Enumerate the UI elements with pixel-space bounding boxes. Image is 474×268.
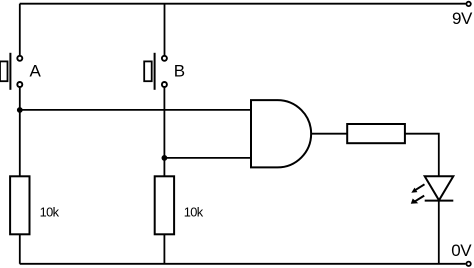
push button switch A xyxy=(0,53,22,90)
wire node A down to resistor R1 xyxy=(19,110,21,176)
svg-text:0V: 0V xyxy=(451,241,472,260)
LED D1 xyxy=(411,176,454,203)
label B xyxy=(174,62,185,81)
svg-text:10k: 10k xyxy=(184,204,204,219)
label 0V xyxy=(451,241,472,260)
wire 9V rail down to switch A xyxy=(19,4,21,56)
node A junction xyxy=(17,107,23,113)
wire resistor R2 to 0V rail xyxy=(163,234,165,263)
svg-text:B: B xyxy=(174,62,185,81)
wire node B to AND gate input 2 xyxy=(164,157,251,159)
wire LED to 0V rail xyxy=(438,201,440,264)
svg-text:9V: 9V xyxy=(452,9,473,28)
wire AND gate output to resistor R3 xyxy=(311,133,347,135)
terminal 9V xyxy=(466,2,470,6)
svg-text:10k: 10k xyxy=(40,204,60,219)
resistor R2 xyxy=(155,176,174,234)
AND gate U1 xyxy=(251,100,311,167)
terminal 0V xyxy=(466,262,470,266)
label 9V xyxy=(452,9,473,28)
node B junction xyxy=(162,155,168,161)
wire bottom 0V rail xyxy=(20,263,466,265)
wire switch B to node B xyxy=(163,88,165,158)
label A xyxy=(30,62,42,81)
wire resistor R3 to LED corner xyxy=(405,134,439,177)
wire node A to AND gate input 1 xyxy=(20,109,251,111)
wire switch A to node A xyxy=(19,88,21,110)
label 10k (R1) xyxy=(40,204,60,219)
wire node B down to resistor R2 xyxy=(163,158,165,176)
push button switch B xyxy=(144,53,167,90)
wire 9V rail down to switch B xyxy=(164,4,166,56)
resistor R1 xyxy=(10,176,29,234)
wire top 9V rail xyxy=(20,3,466,5)
svg-text:A: A xyxy=(30,62,42,81)
resistor R3 xyxy=(347,124,405,143)
label 10k (R2) xyxy=(184,204,204,219)
wire resistor R1 to 0V rail xyxy=(19,234,21,263)
